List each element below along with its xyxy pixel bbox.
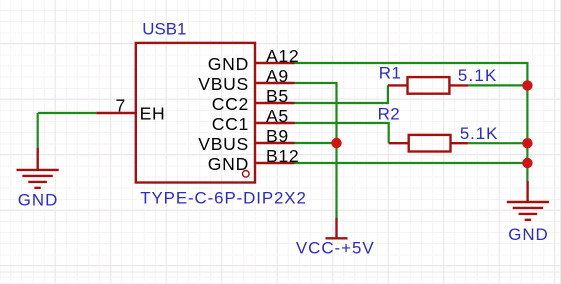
svg-text:CC1: CC1 xyxy=(212,114,249,134)
wire B12 GND xyxy=(295,162,528,164)
svg-text:A9: A9 xyxy=(266,66,289,86)
wire down to left ground xyxy=(37,113,39,149)
resistor R1 xyxy=(388,77,468,94)
junction VBUS B9 xyxy=(331,138,341,148)
wire R1 to right rail xyxy=(468,84,527,86)
svg-text:GND: GND xyxy=(18,191,59,210)
svg-text:R2: R2 xyxy=(378,105,401,124)
pin B12 GND line xyxy=(255,162,295,164)
junction R1 right xyxy=(522,80,532,90)
svg-text:TYPE-C-6P-DIP2X2: TYPE-C-6P-DIP2X2 xyxy=(140,188,306,207)
svg-text:USB1: USB1 xyxy=(142,20,186,39)
wire B5 CC2 to R1 xyxy=(295,85,388,103)
junction R2 right xyxy=(522,138,532,148)
svg-text:GND: GND xyxy=(208,54,249,74)
wire EH to ground xyxy=(38,112,96,114)
svg-text:B12: B12 xyxy=(266,146,299,166)
junction B12 right xyxy=(522,158,532,168)
bubble on GND pin xyxy=(243,171,250,178)
wire B9 VBUS xyxy=(295,142,337,144)
svg-text:R1: R1 xyxy=(379,64,402,83)
wire VBUS to VCC xyxy=(335,143,337,219)
IC USB1 box xyxy=(136,43,255,183)
svg-text:VCC-+5V: VCC-+5V xyxy=(296,238,375,257)
pin A12 GND line xyxy=(255,62,295,64)
pin A5 CC1 line xyxy=(255,122,295,124)
svg-text:7: 7 xyxy=(116,96,127,116)
svg-text:VBUS: VBUS xyxy=(198,74,249,94)
wire A9 VBUS down xyxy=(295,83,337,143)
pin B5 CC2 line xyxy=(255,102,295,104)
resistor R2 xyxy=(389,135,469,152)
svg-text:GND: GND xyxy=(208,154,249,174)
svg-text:EH: EH xyxy=(140,103,166,123)
svg-text:5.1K: 5.1K xyxy=(458,66,498,85)
svg-text:GND: GND xyxy=(508,225,549,244)
ground GND right xyxy=(507,181,549,220)
svg-text:B9: B9 xyxy=(266,126,289,146)
pin A9 VBUS line xyxy=(255,82,295,84)
pin 7 EH line xyxy=(96,112,136,114)
svg-text:B5: B5 xyxy=(266,86,289,106)
svg-text:A5: A5 xyxy=(266,106,289,126)
wire A5 CC1 to R2 xyxy=(295,123,389,143)
svg-text:5.1K: 5.1K xyxy=(460,124,498,143)
svg-text:CC2: CC2 xyxy=(212,94,249,114)
svg-text:VBUS: VBUS xyxy=(198,134,249,154)
power VCC-+5V xyxy=(326,218,348,239)
wire A12 to right rail xyxy=(295,63,528,85)
ground GND left xyxy=(17,148,59,188)
wire right rail down xyxy=(526,85,528,181)
wire R2 to right rail xyxy=(468,142,527,144)
pin B9 VBUS line xyxy=(255,142,295,144)
svg-text:A12: A12 xyxy=(266,46,299,66)
